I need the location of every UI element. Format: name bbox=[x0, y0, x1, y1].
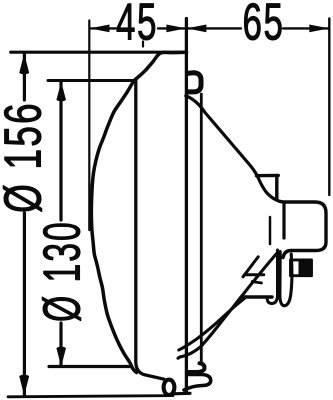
arrow 65 right bbox=[309, 25, 329, 33]
dimension line 65 left shaft bbox=[186, 27, 241, 29]
arrow diameter156 bottom bbox=[19, 375, 29, 396]
lens front profile curve bbox=[91, 52, 186, 372]
dimension line diameter156 vertical shafts bbox=[23, 53, 26, 100]
arrow diameter156 top bbox=[19, 54, 29, 75]
arrow 65 left bbox=[186, 25, 206, 33]
extension line diameter130 bottom bbox=[49, 365, 132, 368]
lamp bottom edge bbox=[173, 392, 191, 396]
bracket seat top edge bbox=[257, 174, 279, 178]
arrow 45 right bbox=[166, 25, 186, 33]
dimension line 45 left shaft bbox=[90, 27, 117, 29]
spring clip middle bar bbox=[245, 273, 264, 276]
arrow diameter130 top bbox=[56, 82, 66, 102]
spring wire J hook bbox=[267, 250, 277, 304]
svg-text:Ø 156: Ø 156 bbox=[0, 101, 52, 213]
seal ring line bbox=[200, 94, 203, 363]
extension line diameter156 top bbox=[11, 51, 187, 54]
spring wire long diagonal bbox=[178, 254, 277, 359]
reflector cone bottom edge bbox=[179, 298, 245, 350]
bottom tab 1 bbox=[189, 363, 205, 372]
arrow diameter130 bottom bbox=[56, 347, 66, 367]
rubber boot leaf bbox=[280, 252, 292, 306]
extension line diameter130 top bbox=[48, 79, 136, 82]
lens seat line (diameter130 edge-on) with bottom lip bbox=[136, 81, 164, 380]
bulb holder bottom edge bbox=[244, 295, 273, 298]
cable exit block fill bbox=[299, 260, 313, 276]
connector left inner edge bbox=[282, 205, 285, 239]
connector housing outline bbox=[283, 202, 327, 258]
extension line for 45 left, down to lens vertex bbox=[88, 21, 90, 231]
rim back line (diameter156 edge-on) bbox=[185, 19, 188, 394]
spring clip short diagonal bbox=[243, 257, 258, 277]
dimension line diameter130 vertical shafts bbox=[59, 81, 62, 220]
dimension line 45 right shaft bbox=[158, 27, 186, 29]
svg-text:65: 65 bbox=[243, 0, 285, 51]
extension line 65 right bbox=[328, 19, 330, 196]
reflector cone top edge bbox=[186, 96, 283, 202]
bracket seat right edge bbox=[275, 177, 278, 200]
top mounting tab bbox=[188, 73, 201, 92]
small tick below 45 bbox=[142, 42, 144, 47]
svg-text:Ø 130: Ø 130 bbox=[35, 220, 92, 322]
bottom tab 2 bbox=[184, 375, 211, 391]
bulb holder front edge bbox=[269, 217, 272, 244]
lens bottom hook loop bbox=[164, 380, 175, 395]
cable exit block outline bbox=[291, 260, 312, 276]
arrow 45 left bbox=[90, 25, 110, 33]
spring clip short tick bbox=[252, 282, 261, 284]
svg-text:45: 45 bbox=[116, 0, 158, 51]
extension line diameter156 bottom bbox=[8, 396, 173, 397]
dimension line 65 right shaft bbox=[283, 27, 329, 29]
